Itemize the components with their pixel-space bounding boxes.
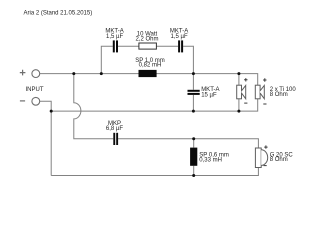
svg-text:2,2 Ohm: 2,2 Ohm [135, 37, 158, 43]
svg-text:1,5 µF: 1,5 µF [171, 34, 188, 40]
svg-text:0,82 mH: 0,82 mH [139, 63, 162, 69]
svg-text:Aria 2 (Stand 21.05.2015): Aria 2 (Stand 21.05.2015) [24, 11, 93, 17]
svg-text:6,8 µF: 6,8 µF [106, 126, 123, 132]
svg-text:15 µF: 15 µF [201, 93, 217, 99]
svg-text:8 Ohm: 8 Ohm [270, 157, 288, 163]
svg-text:0,33 mH: 0,33 mH [199, 157, 222, 163]
svg-text:8 Ohm: 8 Ohm [270, 92, 288, 98]
svg-text:INPUT: INPUT [26, 87, 44, 93]
svg-text:1,5 µF: 1,5 µF [106, 34, 123, 40]
